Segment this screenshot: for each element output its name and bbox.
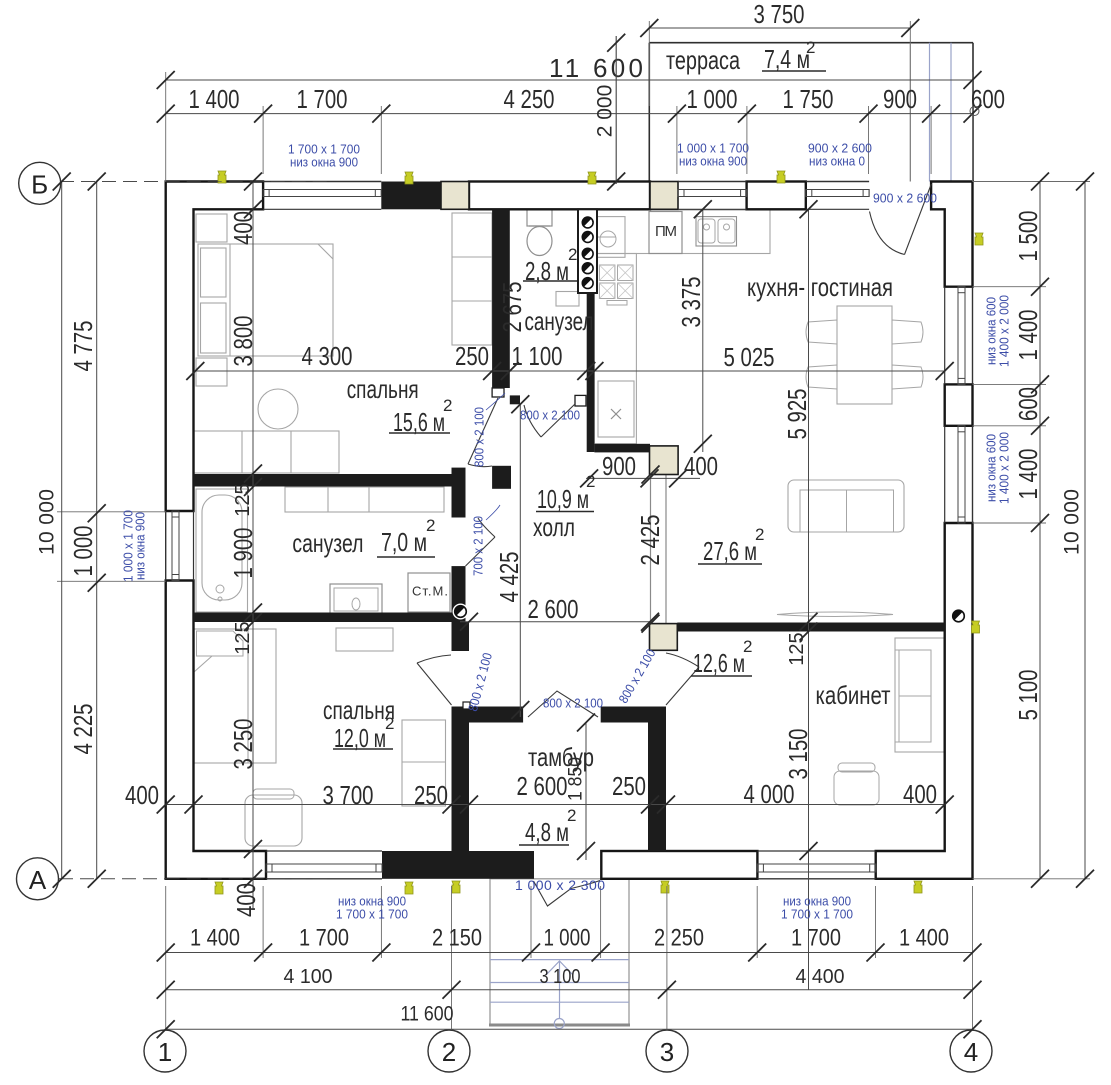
svg-text:400: 400	[231, 883, 261, 917]
svg-text:2 675: 2 675	[497, 282, 527, 333]
svg-text:4 400: 4 400	[796, 966, 845, 988]
svg-text:3 375: 3 375	[676, 277, 706, 328]
svg-text:250: 250	[414, 780, 448, 810]
svg-text:3 800: 3 800	[228, 316, 258, 367]
svg-text:10 000: 10 000	[36, 489, 59, 555]
svg-text:1 500: 1 500	[1013, 211, 1043, 262]
svg-text:тамбур: тамбур	[528, 742, 594, 772]
svg-text:400: 400	[228, 211, 258, 245]
svg-text:3 100: 3 100	[540, 966, 581, 988]
svg-text:терраса: терраса	[666, 45, 740, 75]
svg-text:3: 3	[660, 1037, 674, 1067]
svg-text:4 250: 4 250	[504, 84, 555, 114]
svg-text:1 000 x 2 300: 1 000 x 2 300	[515, 877, 605, 893]
svg-text:1 400: 1 400	[899, 925, 949, 952]
svg-text:низ окна 900: низ окна 900	[290, 155, 358, 170]
svg-text:1 400 x 2 000: 1 400 x 2 000	[997, 295, 1012, 367]
svg-text:3 700: 3 700	[323, 780, 374, 810]
svg-text:2: 2	[806, 38, 815, 57]
svg-text:250: 250	[612, 771, 646, 801]
svg-text:2: 2	[426, 516, 435, 535]
svg-text:1 400: 1 400	[1013, 310, 1043, 361]
svg-text:4,8 м: 4,8 м	[525, 817, 569, 847]
svg-text:1 700 x 1 700: 1 700 x 1 700	[336, 907, 408, 922]
svg-text:4 000: 4 000	[744, 779, 795, 809]
svg-text:2 600: 2 600	[528, 594, 579, 624]
svg-text:400: 400	[903, 779, 937, 809]
svg-text:1 700: 1 700	[297, 84, 348, 114]
svg-text:250: 250	[455, 341, 489, 371]
svg-text:2: 2	[385, 714, 394, 733]
svg-text:11 600: 11 600	[401, 1003, 454, 1026]
svg-text:4 225: 4 225	[68, 704, 98, 755]
svg-text:400: 400	[684, 451, 718, 481]
svg-text:ПМ: ПМ	[655, 223, 677, 240]
svg-text:5 100: 5 100	[1013, 670, 1043, 721]
svg-text:низ окна 0: низ окна 0	[809, 154, 865, 169]
svg-text:2: 2	[443, 396, 452, 415]
svg-text:2 250: 2 250	[654, 925, 704, 952]
svg-text:низ окна 900: низ окна 900	[133, 512, 148, 580]
svg-text:кабинет: кабинет	[816, 680, 891, 710]
svg-text:2: 2	[755, 525, 764, 544]
svg-text:1 400: 1 400	[1013, 449, 1043, 500]
svg-text:800 x 2 100: 800 x 2 100	[543, 696, 603, 711]
svg-text:600: 600	[1013, 387, 1043, 421]
svg-text:1 400: 1 400	[189, 84, 240, 114]
svg-text:900: 900	[883, 84, 917, 114]
svg-text:2 150: 2 150	[432, 925, 482, 952]
svg-text:125: 125	[232, 621, 254, 654]
svg-text:1 750: 1 750	[783, 84, 834, 114]
svg-text:3 750: 3 750	[754, 0, 805, 29]
svg-text:2: 2	[567, 806, 576, 825]
svg-text:2: 2	[568, 245, 577, 264]
svg-text:1 900: 1 900	[228, 528, 258, 579]
svg-text:спальня: спальня	[347, 374, 419, 404]
svg-text:800 x 2 100: 800 x 2 100	[520, 408, 580, 423]
svg-text:10,9 м: 10,9 м	[537, 484, 589, 514]
svg-text:12,6 м: 12,6 м	[693, 648, 745, 678]
svg-text:4: 4	[964, 1037, 978, 1067]
svg-text:5 025: 5 025	[724, 342, 775, 372]
svg-text:800 x 2 100: 800 x 2 100	[472, 407, 487, 467]
svg-text:2: 2	[586, 472, 595, 491]
svg-text:2 600: 2 600	[517, 771, 568, 801]
svg-text:1 000: 1 000	[544, 925, 591, 952]
svg-text:400: 400	[125, 780, 159, 810]
svg-text:125: 125	[232, 483, 254, 516]
svg-text:1: 1	[158, 1037, 172, 1067]
svg-text:санузел: санузел	[292, 528, 363, 558]
svg-text:1 400: 1 400	[190, 925, 240, 952]
svg-text:1 700: 1 700	[791, 925, 841, 952]
svg-text:2 425: 2 425	[635, 515, 665, 566]
svg-text:4 300: 4 300	[302, 341, 353, 371]
svg-text:900: 900	[602, 451, 636, 481]
svg-text:Б: Б	[31, 169, 48, 199]
svg-text:700 x 2 100: 700 x 2 100	[471, 516, 486, 576]
svg-text:27,6 м: 27,6 м	[703, 536, 757, 566]
svg-text:5 925: 5 925	[782, 389, 812, 440]
svg-text:4 425: 4 425	[494, 552, 524, 603]
svg-text:600: 600	[971, 84, 1005, 114]
svg-text:1 100: 1 100	[512, 341, 563, 371]
svg-text:холл: холл	[533, 512, 575, 542]
svg-text:10 000: 10 000	[1061, 489, 1084, 555]
svg-text:7,0 м: 7,0 м	[381, 527, 427, 557]
svg-text:санузел: санузел	[525, 306, 594, 336]
svg-text:2: 2	[743, 637, 752, 656]
svg-text:кухня- гостиная: кухня- гостиная	[747, 272, 893, 302]
svg-text:1 400 x 2 000: 1 400 x 2 000	[997, 432, 1012, 504]
svg-text:2: 2	[442, 1037, 456, 1067]
svg-text:1 700: 1 700	[299, 925, 349, 952]
svg-text:А: А	[29, 865, 47, 895]
svg-text:4 100: 4 100	[284, 966, 333, 988]
svg-text:3 250: 3 250	[228, 719, 258, 770]
svg-text:низ окна 900: низ окна 900	[679, 154, 747, 169]
svg-text:Ст.М.: Ст.М.	[412, 584, 448, 599]
svg-text:900 x 2 600: 900 x 2 600	[873, 191, 937, 206]
svg-text:7,4 м: 7,4 м	[764, 44, 810, 74]
svg-text:1 000: 1 000	[687, 84, 738, 114]
svg-text:1 000: 1 000	[68, 526, 98, 577]
svg-text:125: 125	[786, 632, 808, 665]
svg-text:3 150: 3 150	[783, 729, 813, 780]
svg-text:4 775: 4 775	[68, 321, 98, 372]
svg-text:2 000: 2 000	[594, 85, 617, 138]
svg-text:1 700 x 1 700: 1 700 x 1 700	[781, 907, 853, 922]
